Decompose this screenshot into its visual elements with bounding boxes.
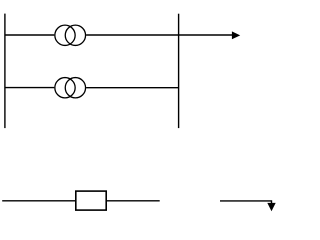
wire (feeder 2, transformer T2 to bus B): [86, 87, 179, 89]
bus B (right vertical busbar): [178, 14, 180, 128]
bus A (left vertical busbar): [4, 14, 6, 129]
wire (feeder 1, transformer T1 across bus B to arrow): [86, 34, 232, 36]
wire (bottom line, left of box): [2, 200, 76, 202]
arrow (bottom right downward arrowhead): [267, 203, 275, 211]
load box (rectangle element): [76, 191, 106, 210]
wire (feeder 1, bus A to transformer T1): [5, 34, 54, 36]
wire (bottom right horizontal with corner down): [220, 201, 272, 204]
wire (feeder 2, bus A to transformer T2): [5, 87, 54, 89]
arrow (feeder 1 outgoing arrowhead): [232, 31, 240, 39]
wire (bottom line, right of box): [106, 200, 160, 202]
transformer T1 (two overlapping circles): [55, 25, 86, 45]
transformer T2 (two overlapping circles): [55, 78, 86, 98]
